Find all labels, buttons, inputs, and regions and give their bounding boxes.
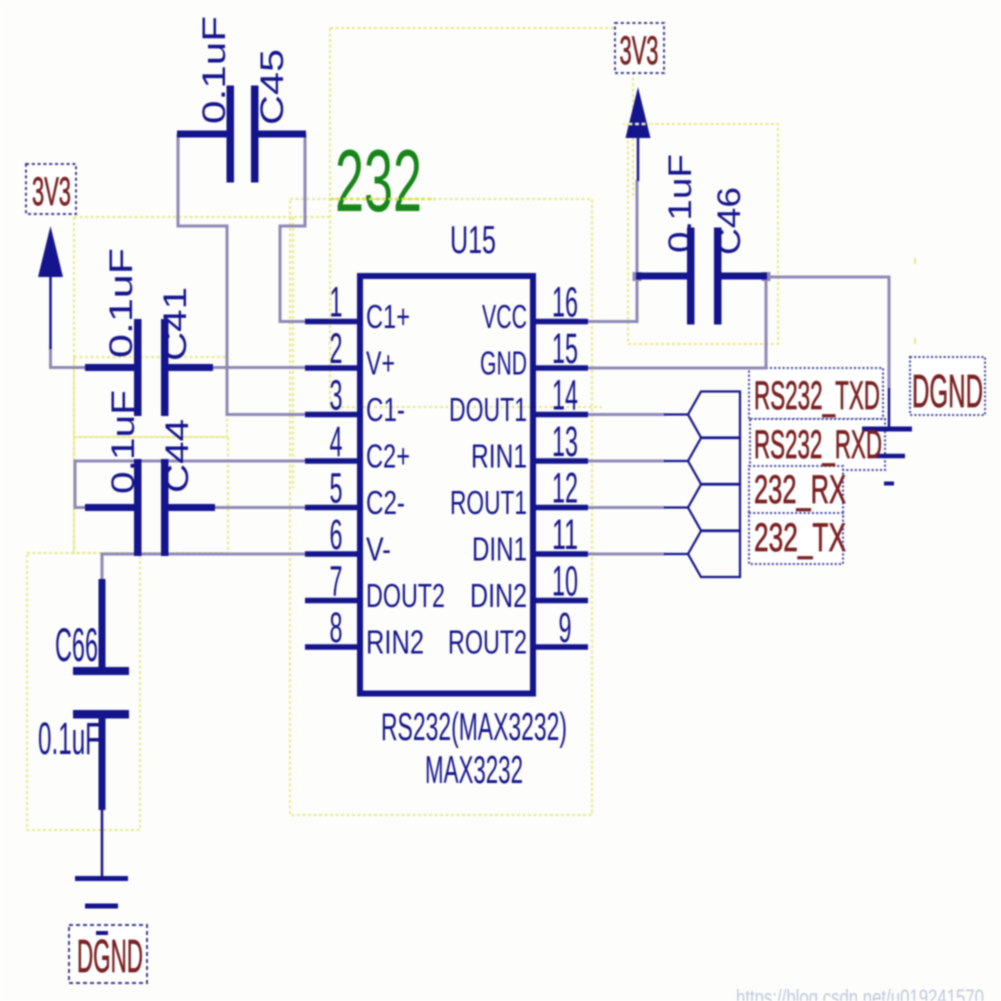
- yellow guide right edge C45 box: [632, 28, 634, 199]
- wire pin4 C2+ to C44 left: [75, 461, 307, 508]
- pin 13 stub: [536, 458, 588, 464]
- svg-text:C1+: C1+: [366, 298, 410, 335]
- pin 14 stub: [536, 412, 588, 418]
- port flag 232_TX: [688, 531, 740, 577]
- ground DGND right: [862, 388, 912, 484]
- yellow guide overlay across right arrow: [622, 123, 655, 125]
- wire pin15 GND to C46 right node: [587, 277, 766, 368]
- capacitor C66 top lead: [99, 579, 106, 668]
- capacitor C41 left plate: [134, 319, 142, 416]
- pin 4 stub: [305, 458, 357, 464]
- svg-text:https://blog.csdn.net/u0192415: https://blog.csdn.net/u019241570: [736, 985, 984, 1001]
- wire C41 to pin2 V+: [212, 366, 310, 369]
- capacitor C41 left lead: [85, 364, 136, 371]
- yellow guide box around C44: [74, 437, 228, 553]
- net label box RS232_TXD: [749, 368, 883, 419]
- port flag 232_RX: [688, 485, 740, 531]
- yellow guide box around C41: [74, 357, 227, 437]
- capacitor C44 right lead: [167, 504, 215, 511]
- wire C45 right plate to pin1 C1+: [280, 134, 310, 322]
- yellow guide box around C46: [628, 124, 778, 344]
- capacitor C66 bottom lead: [99, 718, 106, 810]
- svg-text:C44: C44: [159, 419, 195, 493]
- yellow guide box around C66: [27, 553, 140, 830]
- svg-text:V+: V+: [366, 345, 395, 382]
- capacitor C44 left plate: [134, 459, 142, 556]
- capacitor C45 left plate: [227, 86, 235, 183]
- svg-text:RS232(MAX3232): RS232(MAX3232): [381, 706, 567, 749]
- svg-text:13: 13: [552, 418, 578, 466]
- junction node at C46 left: [633, 272, 642, 281]
- power label box DGND bottom: [69, 925, 147, 983]
- pin 15 stub: [536, 365, 588, 371]
- svg-text:C46: C46: [711, 187, 747, 255]
- svg-text:RS232_TXD: RS232_TXD: [754, 374, 880, 418]
- svg-text:C2+: C2+: [366, 438, 410, 475]
- capacitor C45 left lead: [177, 131, 228, 138]
- svg-text:232: 232: [335, 131, 422, 230]
- pin 8 stub: [305, 644, 357, 650]
- svg-text:DGND: DGND: [77, 930, 143, 982]
- capacitor C46 left plate: [687, 228, 695, 325]
- svg-text:V-: V-: [366, 531, 391, 568]
- wire pin6 V- to C66: [102, 554, 307, 580]
- wire C66 to ground: [101, 810, 104, 877]
- op-amp U15 IC body RS232 MAX3232: [360, 276, 533, 694]
- power arrow 3V3 right: [626, 87, 651, 138]
- svg-text:C2-: C2-: [366, 484, 405, 521]
- pin 6 stub: [305, 551, 357, 557]
- svg-text:RS232_RXD: RS232_RXD: [754, 423, 882, 467]
- net label box 232_RX: [749, 466, 843, 517]
- pin 5 stub: [305, 505, 357, 511]
- svg-text:6: 6: [330, 511, 343, 559]
- ground DGND bottom left: [75, 879, 128, 934]
- svg-text:C41: C41: [157, 287, 193, 361]
- svg-text:8: 8: [330, 604, 343, 652]
- port flag RS232_RXD: [688, 438, 740, 484]
- capacitor C44 left lead: [85, 504, 136, 511]
- svg-text:3: 3: [330, 372, 343, 420]
- net label box RS232_RXD: [750, 419, 885, 470]
- svg-text:DOUT2: DOUT2: [366, 577, 445, 614]
- yellow guide top edge C45 box: [330, 27, 633, 29]
- wire pin12 ROUT1 to port flag: [588, 506, 665, 509]
- svg-text:0.1uF: 0.1uF: [105, 390, 141, 494]
- svg-text:C66: C66: [55, 618, 98, 671]
- svg-text:VCC: VCC: [482, 298, 527, 335]
- wire 3V3 arrow to C41: [51, 347, 89, 368]
- svg-text:DIN2: DIN2: [470, 577, 527, 614]
- wire C45 left plate to pin3 C1-: [178, 134, 307, 415]
- svg-text:16: 16: [552, 279, 578, 327]
- svg-text:3V3: 3V3: [32, 170, 71, 214]
- svg-text:11: 11: [552, 511, 578, 559]
- yellow guide overlay across 232 title: [330, 198, 435, 200]
- power label box 3V3 left: [26, 164, 76, 214]
- svg-text:10: 10: [552, 558, 578, 606]
- yellow guide top edge left section: [74, 216, 330, 218]
- svg-text:DOUT1: DOUT1: [449, 391, 527, 428]
- yellow dash right 2: [914, 338, 916, 344]
- svg-text:DIN1: DIN1: [472, 531, 527, 568]
- pin 10 stub: [536, 598, 588, 604]
- svg-text:7: 7: [330, 558, 343, 606]
- svg-text:15: 15: [552, 325, 578, 373]
- svg-text:C45: C45: [254, 49, 290, 125]
- svg-text:4: 4: [330, 418, 343, 466]
- svg-text:14: 14: [552, 372, 578, 420]
- capacitor C46 right lead: [720, 273, 767, 280]
- svg-text:12: 12: [552, 465, 578, 513]
- capacitor C41 right lead: [167, 364, 213, 371]
- wire pin13 RIN1 to port flag: [588, 460, 665, 463]
- yellow guide left edge left section: [73, 217, 75, 553]
- svg-text:MAX3232: MAX3232: [425, 749, 523, 792]
- power label box DGND right: [910, 357, 985, 415]
- junction node at C46 right: [762, 272, 771, 281]
- wire C44 right to pin5 C2-: [213, 506, 307, 509]
- pin 11 stub: [536, 551, 588, 557]
- wire pin11 DIN1 to port flag: [588, 553, 665, 556]
- wire 3V3 right arrow down to C46 node: [636, 180, 639, 277]
- svg-text:5: 5: [330, 465, 343, 513]
- net label box 232_TX: [749, 513, 843, 564]
- capacitor C45 right lead: [257, 131, 306, 138]
- wire pin16 VCC to C46 node: [587, 277, 637, 322]
- svg-text:DGND: DGND: [912, 365, 983, 417]
- svg-text:232_TX: 232_TX: [754, 516, 846, 560]
- capacitor C66 top plate: [73, 667, 129, 675]
- svg-text:9: 9: [559, 604, 572, 652]
- svg-text:2: 2: [330, 325, 343, 373]
- svg-text:0.1uF: 0.1uF: [196, 16, 232, 124]
- svg-text:C1-: C1-: [366, 391, 405, 428]
- svg-text:0.1uF: 0.1uF: [662, 154, 698, 253]
- capacitor C44 right plate: [161, 459, 169, 556]
- power label box 3V3 right: [615, 23, 664, 73]
- wire pin14 DOUT1 to port flag: [588, 413, 665, 416]
- pin 9 stub: [536, 644, 588, 650]
- svg-text:3V3: 3V3: [620, 29, 659, 73]
- yellow guide long horizontal: [330, 406, 602, 408]
- capacitor C66 bottom plate: [73, 710, 129, 719]
- capacitor C46 right plate: [714, 228, 722, 325]
- wire C46 right node to DGND ground: [766, 277, 889, 388]
- pin 1 stub: [305, 319, 357, 325]
- svg-text:RIN2: RIN2: [366, 624, 424, 661]
- yellow guide box around U15: [290, 199, 592, 815]
- svg-text:U15: U15: [450, 219, 496, 262]
- yellow guide left edge C45 box: [329, 28, 331, 407]
- pin 3 stub: [305, 412, 357, 418]
- capacitor C46 left lead: [636, 273, 689, 280]
- svg-text:ROUT2: ROUT2: [448, 624, 527, 661]
- svg-text:232_RX: 232_RX: [754, 468, 846, 512]
- yellow guide right edge left section: [292, 217, 294, 488]
- svg-text:GND: GND: [480, 345, 527, 382]
- pin 7 stub: [305, 598, 357, 604]
- power arrow 3V3 left: [38, 226, 63, 277]
- svg-text:1: 1: [330, 279, 343, 327]
- pin 16 stub: [536, 319, 588, 325]
- svg-text:0.1uF: 0.1uF: [38, 713, 100, 764]
- capacitor C45 right plate: [251, 86, 259, 183]
- yellow dash right: [914, 258, 916, 264]
- svg-text:RIN1: RIN1: [471, 438, 527, 475]
- port flag RS232_TXD: [688, 392, 740, 438]
- svg-text:0.1uF: 0.1uF: [103, 248, 139, 358]
- svg-text:ROUT1: ROUT1: [450, 484, 527, 521]
- pin 2 stub: [305, 365, 357, 371]
- capacitor C41 right plate: [161, 319, 169, 416]
- pin 12 stub: [536, 505, 588, 511]
